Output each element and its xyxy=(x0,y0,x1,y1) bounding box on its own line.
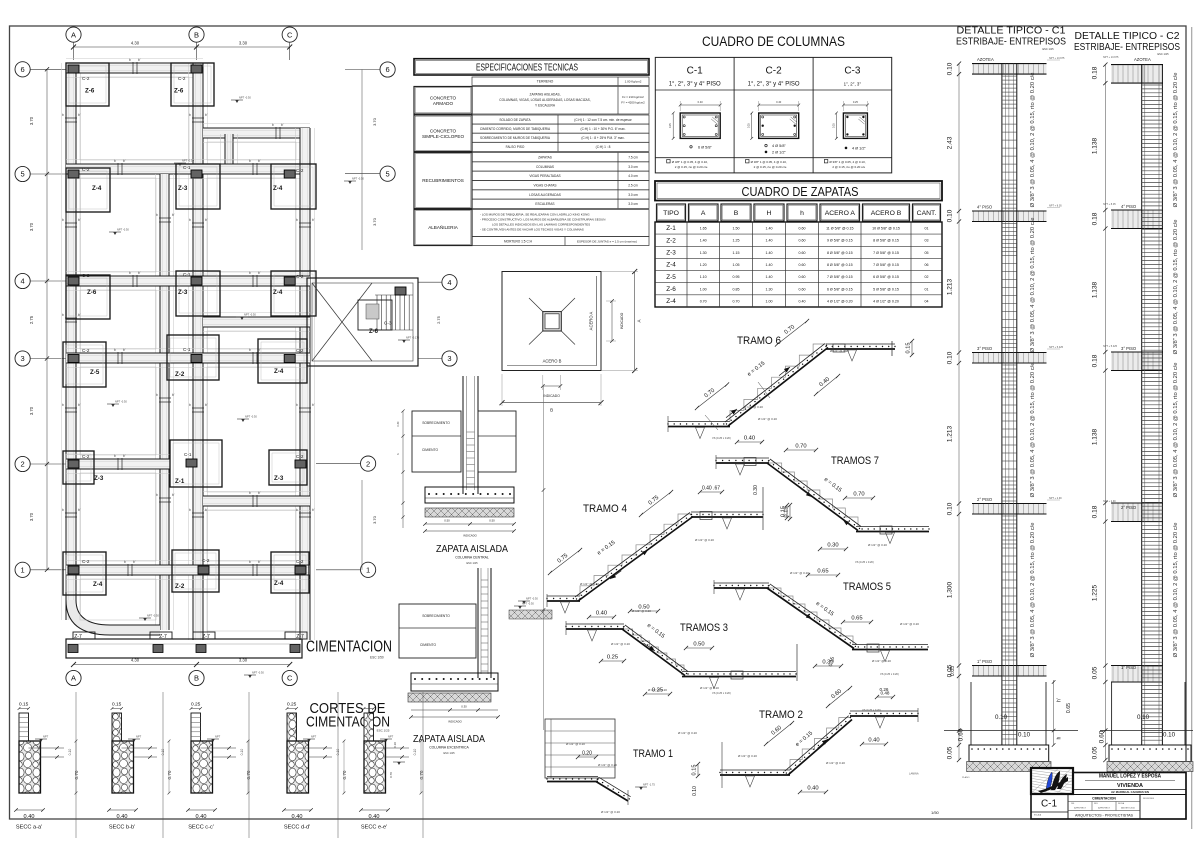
title block logo box xyxy=(1028,760,1099,805)
nfp symbol #10 xyxy=(514,602,534,610)
svg-text:b: b xyxy=(62,113,64,117)
svg-text:0.25: 0.25 xyxy=(748,123,751,128)
seccion e-e' xyxy=(359,707,424,830)
label C-2 xyxy=(178,76,186,81)
svg-text:0.40: 0.40 xyxy=(868,738,879,744)
svg-text:(C:H) 1 : 12 con 7.5 cm. min: (C:H) 1 : 12 con 7.5 cm. min. de espesor xyxy=(574,118,632,122)
svg-text:Ø 1/2" @ 0.20: Ø 1/2" @ 0.20 xyxy=(566,742,585,746)
svg-text:0.25: 0.25 xyxy=(287,702,297,708)
zapata Z-4 at (66,168) xyxy=(66,168,110,212)
svg-text:Ø 3/8" 3 @ 0.05, 4 @ 0.10, 2 @: Ø 3/8" 3 @ 0.05, 4 @ 0.10, 2 @ 0.15, rto… xyxy=(1173,73,1179,208)
column marker C-1 at (196,174) xyxy=(191,170,202,178)
svg-text:1°, 2°, 3°: 1°, 2°, 3° xyxy=(844,82,862,87)
espec rows recubrimientos xyxy=(472,153,649,209)
svg-text:b': b' xyxy=(205,403,208,407)
zapata aislada central - bottom dims xyxy=(423,519,516,538)
svg-text:Ø 1/2" @ 0.20: Ø 1/2" @ 0.20 xyxy=(580,582,599,586)
column marker C-1 at (192,463) xyxy=(186,459,197,467)
svg-text:Z-1: Z-1 xyxy=(666,225,676,232)
svg-text:LOSAS ALIGERADAS: LOSAS ALIGERADAS xyxy=(529,193,561,197)
svg-text:0.10: 0.10 xyxy=(393,742,397,748)
svg-text:4.0 cm: 4.0 cm xyxy=(628,174,638,178)
svg-text:0.70: 0.70 xyxy=(342,770,347,779)
stair TRAMOS 7 flight xyxy=(767,459,861,531)
wall axis B vertical xyxy=(189,63,208,640)
column marker C-2 at (290,174) xyxy=(284,170,295,178)
svg-text:C: C xyxy=(287,674,293,683)
detalle C1 footing xyxy=(967,745,1051,772)
svg-text:Ø 1/2" @ 0.20: Ø 1/2" @ 0.20 xyxy=(872,659,891,663)
svg-text:b: b xyxy=(249,159,251,163)
espec row terreno xyxy=(472,77,649,86)
stair TRAMOS 3 bottom landing xyxy=(681,644,797,689)
svg-text:5: 5 xyxy=(386,169,390,178)
svg-text:0.10: 0.10 xyxy=(947,351,954,364)
label Z-7 #1 xyxy=(74,634,82,640)
svg-text:b': b' xyxy=(123,454,126,458)
svg-text:0.15: 0.15 xyxy=(692,765,698,776)
svg-text:Z-2: Z-2 xyxy=(666,237,676,244)
svg-text:CUADRO DE ZAPATAS: CUADRO DE ZAPATAS xyxy=(742,184,859,199)
zapata Z-6 at (66,275) xyxy=(66,275,110,319)
svg-text:0.60: 0.60 xyxy=(1099,730,1106,743)
stair TRAMO 1 landing and flight xyxy=(546,777,630,806)
label Z-3 xyxy=(178,185,188,192)
svg-text:NPT -0.30: NPT -0.30 xyxy=(252,671,264,675)
svg-text:Z-3: Z-3 xyxy=(94,475,104,482)
zapata aislada excentrica - column strip xyxy=(478,568,491,678)
svg-text:0.50: 0.50 xyxy=(444,519,450,523)
svg-text:ESPECIFICACIONES TECNICAS: ESPECIFICACIONES TECNICAS xyxy=(476,63,578,74)
svg-text:ZAPATAS AISLADAS,: ZAPATAS AISLADAS, xyxy=(530,93,561,97)
svg-text:b: b xyxy=(62,508,64,512)
svg-text:0.10: 0.10 xyxy=(413,749,417,756)
stair TRAMO 6 label xyxy=(737,335,781,347)
svg-text:3.70: 3.70 xyxy=(29,222,34,231)
svg-text:0.95: 0.95 xyxy=(733,275,740,279)
svg-text:Ø 1/2" @ 0.20: Ø 1/2" @ 0.20 xyxy=(790,571,809,575)
svg-text:b: b xyxy=(124,560,126,564)
svg-text:0.70: 0.70 xyxy=(389,772,393,778)
title CIMENTACION xyxy=(306,639,392,660)
svg-text:03: 03 xyxy=(925,239,929,243)
svg-text:NPT -0.30: NPT -0.30 xyxy=(182,159,194,163)
column marker Z-7 #2 xyxy=(153,645,163,653)
svg-text:NPT -0.30: NPT -0.30 xyxy=(244,313,256,317)
svg-text:6: 6 xyxy=(386,65,390,74)
svg-text:3° PISO: 3° PISO xyxy=(977,346,993,351)
svg-text:b: b xyxy=(296,508,298,512)
svg-text:h': h' xyxy=(1057,698,1063,702)
column section sketch C-1 xyxy=(669,100,721,140)
column marker C-1 at (196,281) xyxy=(191,277,202,285)
zapata Z-1 at (170,440) xyxy=(170,440,222,487)
svg-text:CIMENTACION: CIMENTACION xyxy=(306,639,392,656)
svg-text:0.18: 0.18 xyxy=(1092,212,1099,225)
svg-text:CONCRETO: CONCRETO xyxy=(430,128,457,133)
zapata Z-2 at (172,550) xyxy=(172,550,219,592)
svg-text:SECC c-c': SECC c-c' xyxy=(188,825,214,831)
svg-text:0.05: 0.05 xyxy=(947,746,954,759)
svg-text:0.50: 0.50 xyxy=(638,605,649,611)
column marker Z-7 #4 xyxy=(290,645,300,653)
grid bubble 4 left xyxy=(15,273,66,288)
stair TRAMOS 3 flight xyxy=(622,625,688,676)
wall y322 B-C xyxy=(203,313,310,332)
svg-text:(C:H) 1 : 10 + 30% P.G. 6" ma: (C:H) 1 : 10 + 30% P.G. 6" max. xyxy=(581,127,626,131)
svg-text:06: 06 xyxy=(925,263,929,267)
svg-text:1.40: 1.40 xyxy=(766,227,773,231)
title ZAPATA AISLADA excentrica xyxy=(413,734,485,755)
svg-text:4.30: 4.30 xyxy=(131,41,140,46)
svg-text:ZAPATA AISLADA: ZAPATA AISLADA xyxy=(436,544,508,555)
svg-text:0.18: 0.18 xyxy=(1092,354,1099,367)
svg-text:b: b xyxy=(189,403,191,407)
svg-text:SECC e-e': SECC e-e' xyxy=(361,825,387,831)
svg-text:A.PROYECT: A.PROYECT xyxy=(1074,807,1086,810)
svg-text:b': b' xyxy=(78,113,81,117)
label C-2 xyxy=(82,76,90,81)
svg-text:4 Ø 1/2": 4 Ø 1/2" xyxy=(852,147,866,151)
svg-text:01: 01 xyxy=(925,227,929,231)
svg-text:2.43: 2.43 xyxy=(947,136,954,149)
column section sketch C-2 xyxy=(748,100,800,140)
svg-text:ACERO B: ACERO B xyxy=(871,210,902,217)
nfp symbol #4 xyxy=(109,228,129,236)
column marker C-2 at (74,69) xyxy=(68,65,79,73)
svg-text:C-3: C-3 xyxy=(384,321,392,326)
svg-text:CIMIENTO: CIMIENTO xyxy=(420,643,436,647)
svg-text:5 Ø 5/8" @ 0.15: 5 Ø 5/8" @ 0.15 xyxy=(873,287,899,291)
svg-text:4: 4 xyxy=(447,278,451,287)
cuadro zapatas title box xyxy=(655,181,942,201)
svg-text:b: b xyxy=(249,271,251,275)
column marker C-2 at (74,174) xyxy=(68,170,79,178)
svg-text:Z-7: Z-7 xyxy=(159,634,167,640)
svg-text:Ø 1/2" @ 0.20: Ø 1/2" @ 0.20 xyxy=(868,543,887,547)
svg-text:0.40: 0.40 xyxy=(117,814,128,820)
seccion d-d' xyxy=(282,702,347,831)
svg-text:4.30: 4.30 xyxy=(131,658,140,663)
svg-text:b: b xyxy=(156,393,158,397)
top dimension line 4.30 / 3.30 xyxy=(71,41,292,50)
svg-text:3° PISO: 3° PISO xyxy=(1121,346,1137,351)
svg-text:b: b xyxy=(189,218,191,222)
svg-text:0.10: 0.10 xyxy=(692,786,698,796)
svg-text:Ø 3/8" 3 @ 0.05, 4 @ 0.10, 2 @: Ø 3/8" 3 @ 0.05, 4 @ 0.10, 2 @ 0.15, rto… xyxy=(1173,363,1179,498)
curved wall bottom-left xyxy=(66,600,160,635)
zapata Z-5 at (63,342) xyxy=(63,342,106,387)
svg-text:b': b' xyxy=(138,271,141,275)
svg-text:3.30: 3.30 xyxy=(239,658,248,663)
column marker C-3 tower xyxy=(395,287,406,295)
excentrica left small labels xyxy=(389,742,405,778)
svg-text:0.25: 0.25 xyxy=(607,655,618,661)
svg-text:b': b' xyxy=(258,348,261,352)
svg-text:0.10: 0.10 xyxy=(1137,714,1150,721)
grid bubble 6 left xyxy=(15,62,66,77)
svg-text:0.60: 0.60 xyxy=(799,275,806,279)
svg-text:4 Ø 5/8": 4 Ø 5/8" xyxy=(772,144,786,148)
svg-text:NPT + 10.675: NPT + 10.675 xyxy=(1103,56,1119,59)
svg-text:NPT: NPT xyxy=(43,735,49,739)
svg-text:3.70: 3.70 xyxy=(372,217,377,226)
zapata aislada central - column strip xyxy=(463,376,478,494)
svg-text:REV.: REV. xyxy=(1094,803,1099,805)
svg-text:TRAMOS 7: TRAMOS 7 xyxy=(831,455,879,467)
stair TRAMO 4 flight xyxy=(575,513,693,602)
svg-text:Ø 3/8" 3 @ 0.05, 4 @ 0.10, 2 @: Ø 3/8" 3 @ 0.05, 4 @ 0.10, 2 @ 0.15, rto… xyxy=(1030,363,1036,498)
svg-text:C-2: C-2 xyxy=(296,454,304,459)
svg-text:1/50: 1/50 xyxy=(931,810,940,815)
svg-text:Ø 3/8" 3 @ 0.05, 4 @ 0.10, 2 @: Ø 3/8" 3 @ 0.05, 4 @ 0.10, 2 @ 0.15, rto… xyxy=(1030,523,1036,658)
svg-text:Ø 1/2" @ 0.20: Ø 1/2" @ 0.20 xyxy=(744,405,763,409)
label Z-1 xyxy=(175,478,185,485)
svg-text:0.40: 0.40 xyxy=(807,786,818,792)
svg-text:11 Ø 5/8" @ 0.15: 11 Ø 5/8" @ 0.15 xyxy=(826,227,853,231)
svg-text:1.00: 1.00 xyxy=(766,299,773,303)
svg-text:0.50: 0.50 xyxy=(693,642,704,648)
svg-text:3.70: 3.70 xyxy=(29,512,34,521)
svg-text:3: 3 xyxy=(447,354,451,363)
svg-text:0.70: 0.70 xyxy=(167,770,172,779)
zapata Z-6 at (171,63) xyxy=(171,63,214,106)
stair TRAMOS 5 top landing xyxy=(713,580,769,600)
svg-text:0.70: 0.70 xyxy=(700,299,707,303)
svg-text:b: b xyxy=(129,271,131,275)
svg-text:REVISIONES: REVISIONES xyxy=(1143,798,1155,800)
svg-text:DIB.: DIB. xyxy=(1071,803,1075,805)
svg-text:b: b xyxy=(62,313,64,317)
svg-text:C-2: C-2 xyxy=(296,559,304,564)
label C-2 xyxy=(296,559,304,564)
svg-text:Ø 3/8" 3 @ 0.05, 4 @ 0.10, 2 @: Ø 3/8" 3 @ 0.05, 4 @ 0.10, 2 @ 0.15, rto… xyxy=(1173,220,1179,355)
svg-text:VIVIENDA: VIVIENDA xyxy=(1117,783,1143,789)
svg-text:1.40: 1.40 xyxy=(766,251,773,255)
svg-text:C-2: C-2 xyxy=(82,559,90,564)
svg-text:b': b' xyxy=(172,393,175,397)
column marker C-2 at (300,464) xyxy=(295,460,306,468)
svg-text:NPT + 5.425: NPT + 5.425 xyxy=(1049,346,1064,349)
svg-text:Z-4: Z-4 xyxy=(93,581,103,588)
column marker C-2 at (300,570) xyxy=(295,566,306,574)
svg-text:0.10: 0.10 xyxy=(947,502,954,515)
svg-text:b': b' xyxy=(312,218,315,222)
label Z-4 xyxy=(93,581,103,588)
svg-text:3.70: 3.70 xyxy=(29,116,34,125)
svg-text:b': b' xyxy=(78,508,81,512)
svg-text:NPT: NPT xyxy=(388,735,394,739)
zapata Z-3 at (176,271) xyxy=(176,271,220,316)
svg-text:0.40: 0.40 xyxy=(776,100,782,104)
stair TRAMOS 5 flight xyxy=(767,584,857,649)
zapata aislada central - left dim chain xyxy=(397,409,405,528)
stair TRAMOS 5 dims xyxy=(800,569,956,677)
cuadro zapatas body xyxy=(655,222,942,307)
stair TRAMO 1 dims xyxy=(566,742,698,814)
svg-text:0.15: 0.15 xyxy=(19,702,29,708)
svg-text:0.10: 0.10 xyxy=(240,749,244,756)
svg-text:3.0 cm: 3.0 cm xyxy=(628,193,638,197)
svg-text:Z-4: Z-4 xyxy=(92,185,102,192)
svg-text:b': b' xyxy=(123,348,126,352)
stair TRAMO 6 dims xyxy=(695,319,914,444)
svg-text:VS (0.25 x 0.20): VS (0.25 x 0.20) xyxy=(855,560,874,564)
label C-2 xyxy=(296,454,304,459)
wall y501 B-C xyxy=(203,492,310,511)
column marker C-2 at (74,358) xyxy=(68,355,79,363)
label Z-6 xyxy=(85,88,95,95)
svg-text:b': b' xyxy=(205,508,208,512)
svg-text:1.213: 1.213 xyxy=(947,425,954,442)
detalle C1 stirrup note rotated xyxy=(1030,73,1036,658)
nfp symbol #8 xyxy=(139,614,159,622)
stair TRAMO 6 bottom landing xyxy=(667,416,730,439)
nfp tower xyxy=(398,336,420,344)
svg-text:Z-6: Z-6 xyxy=(174,88,184,95)
column marker C-2 at (74,570) xyxy=(68,566,79,574)
svg-text:Fc = 210 kg/cm2: Fc = 210 kg/cm2 xyxy=(622,95,644,99)
svg-text:b: b xyxy=(114,454,116,458)
label Z-6 tower xyxy=(369,329,379,335)
svg-text:7.5 cm: 7.5 cm xyxy=(628,156,638,160)
nfp symbol #5 xyxy=(236,313,256,321)
svg-text:3.70: 3.70 xyxy=(372,515,377,524)
title block frame xyxy=(1031,773,1186,820)
svg-text:0.70: 0.70 xyxy=(246,770,251,779)
label C-2 xyxy=(296,274,304,279)
grid bubble 5 left xyxy=(15,166,66,181)
wall axis 1 xyxy=(66,561,310,580)
svg-text:CIMIENTO: CIMIENTO xyxy=(422,448,438,452)
label C-1 xyxy=(183,272,191,277)
svg-text:h: h xyxy=(1057,736,1063,739)
svg-text:0.40: 0.40 xyxy=(596,611,607,617)
svg-text:b: b xyxy=(156,213,158,217)
wall axis C vertical xyxy=(296,128,315,640)
section separator lines xyxy=(76,692,423,838)
zapata plan dim right indicado xyxy=(606,299,624,343)
svg-text:C-1: C-1 xyxy=(183,347,191,352)
svg-text:Z-3: Z-3 xyxy=(178,185,188,192)
label Z-3 xyxy=(178,289,188,296)
stair TRAMO 4 dims xyxy=(548,485,789,619)
svg-text:COLUMNAS: COLUMNAS xyxy=(536,165,554,169)
svg-text:4° PISO: 4° PISO xyxy=(1121,204,1137,209)
svg-text:0.65: 0.65 xyxy=(1066,703,1072,713)
svg-text:AZOTEA: AZOTEA xyxy=(977,57,994,62)
svg-text:NPT -0.30: NPT -0.30 xyxy=(117,228,129,232)
detail area vertical reference line xyxy=(542,385,546,730)
svg-text:Ø 3/8" 3 @ 0.05, 4 @ 0.10, 2 @: Ø 3/8" 3 @ 0.05, 4 @ 0.10, 2 @ 0.15, rto… xyxy=(1173,523,1179,658)
svg-text:b': b' xyxy=(258,271,261,275)
label Z-4 xyxy=(92,185,102,192)
svg-text:Ø 1/2" @ 0.20: Ø 1/2" @ 0.20 xyxy=(598,763,617,767)
zapata aislada excentrica - bottom dims xyxy=(409,705,500,724)
svg-text:COLUMNA CENTRAL: COLUMNA CENTRAL xyxy=(455,556,489,560)
label C-2 xyxy=(82,273,90,278)
seccion b-b' xyxy=(107,702,172,831)
seccion c-c' xyxy=(186,702,251,831)
stair TRAMOS 3 label xyxy=(680,622,728,634)
stirrup note C-1 xyxy=(667,160,708,170)
svg-text:C-2: C-2 xyxy=(296,348,304,353)
detalle C2 bottom labels xyxy=(1137,714,1176,739)
zapata aislada excentrica - footing xyxy=(411,673,498,691)
svg-text:CIMIENTO CORRIDO, MUROS DE TAB: CIMIENTO CORRIDO, MUROS DE TABIQUERIA xyxy=(480,127,551,131)
svg-text:A: A xyxy=(637,319,642,322)
svg-text:ESC 1/25: ESC 1/25 xyxy=(466,561,478,565)
svg-text:b': b' xyxy=(133,560,136,564)
svg-text:C-1: C-1 xyxy=(183,272,191,277)
svg-text:0.60: 0.60 xyxy=(799,263,806,267)
svg-text:ESC 1/25: ESC 1/25 xyxy=(377,729,390,733)
svg-text:b': b' xyxy=(258,159,261,163)
svg-text:6 Ø 5/8": 6 Ø 5/8" xyxy=(698,145,712,149)
room inner offset lines xyxy=(80,77,296,631)
svg-text:0.60: 0.60 xyxy=(799,227,806,231)
svg-text:b': b' xyxy=(258,491,261,495)
svg-text:ARQUITECTOS - PROYECTISTAS: ARQUITECTOS - PROYECTISTAS xyxy=(1075,814,1134,818)
wall stub B-C x230 xyxy=(221,134,238,164)
svg-text:2 @ 0.15, rto @ 0.20 c/e: 2 @ 0.15, rto @ 0.20 c/e xyxy=(754,165,787,169)
svg-text:NPT: NPT xyxy=(215,735,221,739)
wall axis A vertical xyxy=(62,63,81,620)
label Z-3 xyxy=(94,475,104,482)
svg-text:b': b' xyxy=(138,58,141,62)
svg-text:0.05: 0.05 xyxy=(1092,666,1099,679)
svg-text:2° PISO: 2° PISO xyxy=(977,497,993,502)
svg-text:C-1: C-1 xyxy=(184,452,192,457)
svg-text:0.85: 0.85 xyxy=(733,287,740,291)
svg-text:Ø 1/2" @ 0.20: Ø 1/2" @ 0.20 xyxy=(758,417,777,421)
grid bubble C bottom xyxy=(282,670,297,685)
svg-text:1.213: 1.213 xyxy=(947,278,954,295)
label Z-4 xyxy=(274,368,284,375)
label Z-4 xyxy=(273,185,283,192)
svg-text:DETALLE TIPICO - C1: DETALLE TIPICO - C1 xyxy=(957,26,1066,37)
label C-1 xyxy=(183,347,191,352)
svg-text:ESPESOR DE JUNTAS e = 1.5 cm: ESPESOR DE JUNTAS e = 1.5 cm (maximo) xyxy=(577,239,637,243)
zapata plan dim right A xyxy=(601,269,642,373)
column section sketch C-3 xyxy=(832,100,868,140)
title block bottom band xyxy=(1031,795,1186,820)
svg-text:b: b xyxy=(129,58,131,62)
svg-text:0.25: 0.25 xyxy=(832,123,835,128)
stair TRAMO 1 upper wall xyxy=(545,719,615,778)
svg-text:b: b xyxy=(249,348,251,352)
svg-text:0.40 .67: 0.40 .67 xyxy=(702,486,720,492)
svg-text:TRAMO 1: TRAMO 1 xyxy=(633,748,673,760)
svg-text:SECC d-d': SECC d-d' xyxy=(284,825,310,831)
svg-text:1.00: 1.00 xyxy=(700,287,707,291)
zapata Z-4 at (271,164) xyxy=(271,164,316,209)
svg-text:1.00 Kg/cm2: 1.00 Kg/cm2 xyxy=(625,79,642,83)
stair TRAMO 1 label xyxy=(633,748,673,760)
wall top of B-C wing xyxy=(203,124,310,143)
svg-text:SECC a-a': SECC a-a' xyxy=(16,825,42,831)
svg-text:ESC 1/25: ESC 1/25 xyxy=(443,751,455,755)
svg-text:b: b xyxy=(156,493,158,497)
label Z-4 xyxy=(274,580,284,587)
svg-text:2 @ 0.15, rto @ 0.20 c/e: 2 @ 0.15, rto @ 0.20 c/e xyxy=(832,165,865,169)
wall axis 5 xyxy=(66,160,310,179)
svg-text:b: b xyxy=(62,403,64,407)
stair TRAMO 4 top landing xyxy=(690,487,763,530)
svg-text:b': b' xyxy=(78,218,81,222)
stair TRAMO 2 dims xyxy=(678,686,895,794)
label Z-3 xyxy=(274,475,284,482)
